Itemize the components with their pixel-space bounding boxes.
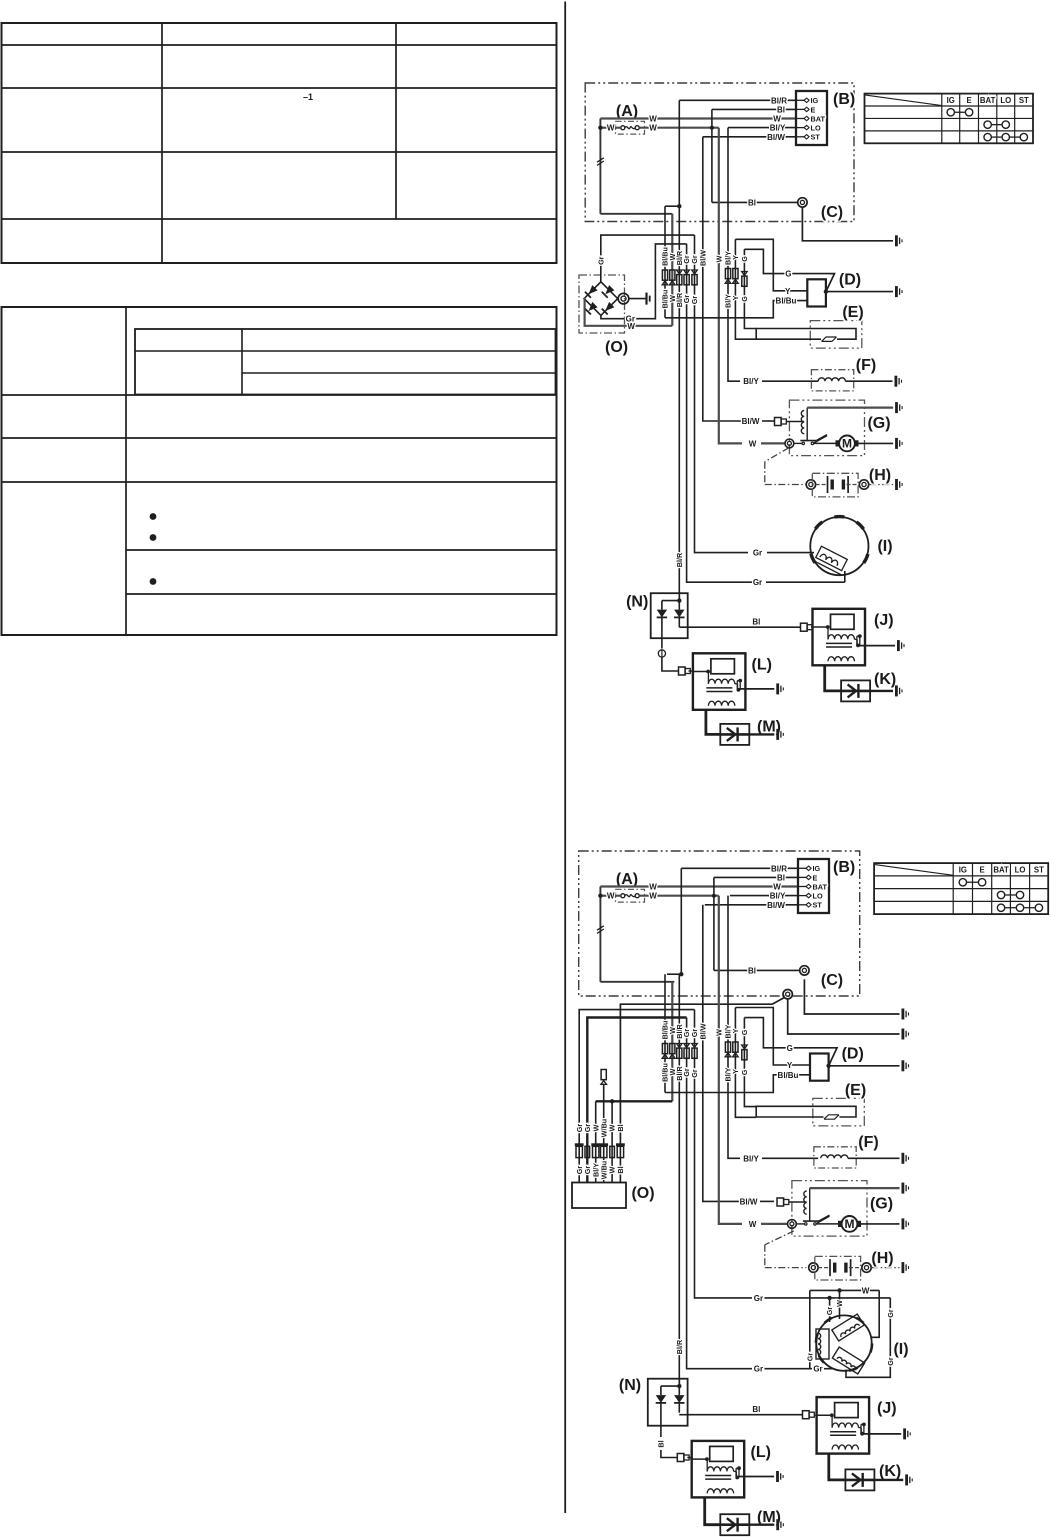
wire W to contact <box>796 1223 804 1225</box>
battery H circle left <box>806 480 815 489</box>
junction dot W wire x712 <box>710 126 714 130</box>
switch position table (diagram 1) <box>865 94 1034 144</box>
wire W (BAT) horizontal <box>600 117 796 119</box>
wire Bl/Y (LO) <box>728 127 796 129</box>
wire M to terminal d2 <box>749 1523 774 1525</box>
svg-text:Bl/R: Bl/R <box>771 864 787 873</box>
wire W (BAT) horizontal <box>600 885 798 887</box>
generator I coil 1 d2 <box>832 1314 864 1341</box>
svg-text:E: E <box>813 873 818 882</box>
diode N leads <box>661 616 663 638</box>
CDI unit O box d2 <box>572 1183 626 1209</box>
svg-text:(L): (L) <box>751 1444 771 1461</box>
bridge diode bottom-right <box>605 302 614 311</box>
wire relay D output <box>826 291 893 293</box>
svg-text:(E): (E) <box>845 1082 866 1099</box>
relay G coil <box>801 411 804 434</box>
battery H dash-dot down <box>764 462 766 485</box>
frame terminal G motor <box>902 1218 905 1229</box>
generator I rim tick 335 <box>864 554 868 563</box>
junction dot W wire x712 <box>712 894 716 898</box>
generator I coil block <box>814 546 849 574</box>
svg-text:Bl/R: Bl/R <box>675 552 684 567</box>
wire C1 to frame terminal <box>804 979 899 1014</box>
frame terminal G top <box>895 402 898 413</box>
connector Bl/Bu <box>662 1044 667 1054</box>
svg-text:LO: LO <box>811 124 821 133</box>
svg-text:Bl/W: Bl/W <box>742 417 760 426</box>
wire Bl/W (ST) <box>705 904 798 906</box>
svg-text:(O): (O) <box>605 339 628 356</box>
svg-text:ST: ST <box>1019 96 1029 105</box>
diode N right <box>674 1395 684 1403</box>
svg-text:(J): (J) <box>877 1400 897 1417</box>
connector Gr2 <box>692 270 698 274</box>
pilot lamp E outline <box>756 1106 856 1117</box>
wire C2 diagonal <box>772 998 784 1005</box>
svg-text:LO: LO <box>1000 96 1011 105</box>
generator I rim tick 135 <box>815 522 822 529</box>
wire Gr into circle d2 <box>829 1298 831 1322</box>
battery H link1 <box>818 1267 828 1269</box>
diode unit N box <box>648 1379 688 1426</box>
connector Bl J d2 <box>803 1411 810 1419</box>
diode N left <box>656 1395 666 1403</box>
wire Bl/Y to F coil <box>762 380 818 382</box>
svg-text:ST: ST <box>811 133 821 142</box>
svg-text:Bl/W: Bl/W <box>767 901 785 910</box>
svg-text:Bl: Bl <box>616 1166 625 1173</box>
wire F to terminal <box>845 380 892 382</box>
wire relay G top to terminal <box>807 407 893 409</box>
frame terminal L <box>776 683 779 694</box>
svg-text:W: W <box>607 892 615 901</box>
generator I rim tick 45 <box>857 522 864 529</box>
wire Gr1 into circle d2 <box>824 1368 833 1370</box>
connector Gr1 <box>684 1044 690 1048</box>
wire L output <box>736 1476 774 1478</box>
pilot lamp E dash-dot box <box>813 1098 865 1126</box>
frame terminal D <box>902 1060 905 1071</box>
frame terminal F <box>902 1153 905 1164</box>
svg-text:Bl/Y: Bl/Y <box>770 124 786 133</box>
wire Gr1 up into coil <box>844 571 846 582</box>
svg-text:Bl: Bl <box>748 198 756 207</box>
page column divider <box>564 2 566 1514</box>
diode N right <box>674 610 684 618</box>
wire G column <box>744 249 756 328</box>
fuse A dashed box <box>616 121 645 134</box>
relay D switch diagonal d2 <box>829 1048 837 1066</box>
svg-text:Bl: Bl <box>777 873 785 882</box>
svg-text:Y: Y <box>785 287 791 296</box>
diode N leads <box>660 1402 662 1426</box>
battery H to terminal <box>869 484 893 486</box>
svg-text:Bl: Bl <box>752 618 760 627</box>
svg-text:(H): (H) <box>871 1250 893 1267</box>
wire Bl/Bu to relay D d2 <box>665 1075 810 1093</box>
wire Bl/W column <box>703 137 741 421</box>
lamp E break <box>824 1114 840 1120</box>
wire O pin4 <box>603 1085 605 1183</box>
wire W corner right d2 <box>871 1290 879 1337</box>
svg-text:(I): (I) <box>877 538 892 555</box>
diagram 2 diode K <box>845 1469 874 1490</box>
wire Gr2 column <box>695 235 749 552</box>
frame terminal C1 <box>902 1009 905 1020</box>
wire A loop bottom <box>600 981 674 983</box>
connector Bl/Bu <box>662 270 667 280</box>
wire Bl/Bu-Bl/R link <box>665 205 679 207</box>
svg-text:BAT: BAT <box>811 114 826 123</box>
junction dot A <box>598 894 602 898</box>
svg-text:Bl/Bu: Bl/Bu <box>776 297 797 306</box>
wire L HT tail <box>705 1497 721 1524</box>
wire Gr bridge top <box>601 235 695 282</box>
frame terminal J <box>903 1428 906 1439</box>
wire bridge to ground <box>629 298 646 300</box>
svg-text:LO: LO <box>1015 865 1026 874</box>
svg-text:Gr: Gr <box>754 1294 763 1303</box>
battery H dash-dot right <box>765 1267 806 1269</box>
svg-text:Bl: Bl <box>777 105 785 114</box>
coil F dash-dot box <box>814 1147 856 1168</box>
svg-text:W: W <box>607 124 615 133</box>
ignition coil J block <box>817 1397 870 1454</box>
wire F to terminal <box>848 1157 900 1159</box>
battery H dash-dot right <box>765 484 806 486</box>
starter relay G dash-dot box <box>792 1181 867 1237</box>
svg-text:(C): (C) <box>821 972 843 989</box>
svg-text:(N): (N) <box>619 1377 641 1394</box>
connector Gr2 <box>692 1044 698 1048</box>
wire N left diode down <box>661 638 663 648</box>
wire M to terminal diag1 <box>749 733 774 735</box>
connector O pin4 upper <box>601 1070 606 1080</box>
svg-text:W: W <box>649 115 657 124</box>
battery H cells <box>827 476 829 493</box>
wire A loop bottom <box>600 213 672 215</box>
svg-text:W: W <box>714 255 723 262</box>
wire W through fuse <box>600 895 620 897</box>
svg-text:–1: –1 <box>303 92 313 102</box>
main switch circle C <box>798 198 807 207</box>
wire Y column <box>735 239 756 339</box>
svg-text:Bl/W: Bl/W <box>740 1197 758 1206</box>
svg-text:E: E <box>979 865 984 874</box>
wire Bl/R (IG) <box>679 99 796 101</box>
svg-text:Bl: Bl <box>656 1440 665 1447</box>
wire Bl to C circle <box>714 969 800 971</box>
connector B box <box>798 859 829 913</box>
junction dot A <box>598 126 602 130</box>
wire W to switch circle <box>761 442 785 444</box>
wire contacts to motor <box>814 442 836 444</box>
main switch circle C2 <box>783 990 792 999</box>
table 2 nested grid <box>135 329 556 395</box>
wire G column d2 <box>744 1018 756 1107</box>
diode N junction dot <box>677 598 681 602</box>
frame terminal G motor <box>895 438 898 449</box>
wire Gr1 column d2 <box>687 1018 752 1369</box>
wire relay D output <box>829 1065 900 1067</box>
wire Bl/Y column d2 <box>728 896 740 1159</box>
wire Bl/W conn to coil <box>789 1201 807 1203</box>
fuse A dashed box <box>616 889 645 902</box>
svg-text:BAT: BAT <box>980 96 996 105</box>
bridge diode top-left <box>589 285 598 294</box>
wire Bl/W to connector <box>762 420 774 422</box>
svg-text:G: G <box>787 1044 793 1053</box>
svg-text:Bl/Y: Bl/Y <box>743 1154 759 1163</box>
generator I coil 2 d2 <box>816 1329 829 1359</box>
svg-text:E: E <box>966 96 971 105</box>
diode N internal top <box>662 593 679 610</box>
bridge diode bottom-left <box>589 302 598 311</box>
svg-text:W: W <box>649 892 657 901</box>
wire W column d2 <box>671 982 673 1102</box>
svg-text:M: M <box>842 437 852 451</box>
svg-text:Gr: Gr <box>886 1357 895 1366</box>
table 2 bullet 2 <box>150 534 157 541</box>
table 2 outer grid <box>2 307 557 635</box>
svg-text:(F): (F) <box>858 1134 878 1151</box>
connector G <box>742 1045 748 1049</box>
wire C to frame terminal <box>802 207 893 241</box>
wire Bl N to J <box>679 626 800 628</box>
wire Bl (E) <box>714 876 798 878</box>
generator I coil 3 d2 <box>832 1347 864 1374</box>
wire Bl/Bu to relay D <box>665 301 807 318</box>
frame terminal L <box>776 1471 779 1482</box>
svg-text:Gr: Gr <box>825 1307 834 1316</box>
wire G top link <box>744 249 830 273</box>
wire W thick to pins <box>596 1100 673 1102</box>
svg-text:(L): (L) <box>752 656 772 673</box>
wire Gr1 to generator <box>766 581 845 583</box>
wire W to switch circle d2 <box>761 1223 787 1225</box>
wire Bl (E) <box>712 108 796 110</box>
battery H cells <box>829 1259 831 1276</box>
wire Bl/Y to F coil d2 <box>762 1157 818 1159</box>
generator I circle <box>810 517 868 575</box>
relay G foot bar <box>803 1220 819 1222</box>
wire Y column d2 <box>735 1008 756 1118</box>
frame terminal G top <box>902 1183 905 1194</box>
switch circle G <box>788 1220 797 1229</box>
fuse A symbol <box>621 126 625 130</box>
svg-text:(B): (B) <box>833 91 855 108</box>
svg-text:(H): (H) <box>869 467 891 484</box>
wire Gr bridge bottom <box>601 244 687 319</box>
svg-text:ST: ST <box>813 901 823 910</box>
svg-text:(D): (D) <box>839 272 861 289</box>
junction dot relay D <box>826 1064 830 1068</box>
connector Bl/Y <box>725 1042 730 1052</box>
svg-text:Gr: Gr <box>886 1309 895 1318</box>
wire Bl/Bu column <box>664 206 666 318</box>
wire Bl/Bu-Bl/R link <box>667 973 681 975</box>
wire W2 column d2 <box>719 896 742 1224</box>
wire J output <box>861 1433 901 1435</box>
svg-text:IG: IG <box>813 864 821 873</box>
wire Gr2 to right vertical d2 <box>765 1297 891 1299</box>
break marker on A loop <box>597 158 604 162</box>
svg-text:W: W <box>749 1220 757 1229</box>
connector Bl/W horizontal <box>777 1198 784 1206</box>
diode unit N box <box>651 593 688 638</box>
starter motor M <box>839 436 855 452</box>
wire Gr1 column <box>687 244 755 582</box>
svg-text:Bl/W: Bl/W <box>698 1023 707 1039</box>
relay G coil <box>804 1191 807 1214</box>
junction dot W d2 <box>837 1288 841 1292</box>
battery H dash-dot box <box>812 473 858 497</box>
svg-text:W: W <box>773 883 781 892</box>
svg-text:W: W <box>749 439 757 448</box>
junction dot Gr d2 <box>827 1296 831 1300</box>
generator I rim tick 90 <box>834 515 844 519</box>
bridge diode top-right <box>605 285 614 294</box>
starter motor M <box>842 1216 858 1232</box>
svg-text:(C): (C) <box>821 204 843 221</box>
diagram 1 diode M <box>720 724 749 745</box>
coil F winding <box>821 1155 848 1158</box>
wire Bl N to J d2 <box>679 1414 802 1416</box>
svg-text:W: W <box>627 322 635 331</box>
connector Bl/R <box>677 1044 683 1048</box>
battery H dash-dot link <box>765 448 789 462</box>
coil F winding <box>818 378 845 381</box>
svg-text:Bl/R: Bl/R <box>675 1339 684 1354</box>
svg-text:(K): (K) <box>874 671 896 688</box>
wire W to contact <box>794 442 802 444</box>
svg-text:E: E <box>811 105 816 114</box>
wire N to L connector d2 <box>661 1450 677 1458</box>
wire W into circle d2 <box>839 1290 841 1319</box>
wire Y top link d2 <box>735 1008 810 1066</box>
svg-text:LO: LO <box>813 892 823 901</box>
wire Bl/R column long <box>678 206 680 600</box>
svg-text:IG: IG <box>947 96 955 105</box>
svg-text:BAT: BAT <box>993 865 1009 874</box>
svg-text:W: W <box>649 124 657 133</box>
ignition coil L block <box>693 653 746 710</box>
wire conn to L d2 <box>687 1457 691 1459</box>
wire Y top link <box>735 239 807 290</box>
svg-text:Gr: Gr <box>813 1365 822 1374</box>
svg-text:IG: IG <box>811 96 819 105</box>
svg-text:G: G <box>740 256 749 262</box>
table 2 bullet 3 <box>150 578 157 585</box>
wire O pin6 <box>619 1140 621 1183</box>
frame terminal C <box>895 235 898 246</box>
connector B box <box>796 91 827 145</box>
wire W bridge <box>584 299 672 326</box>
wire Gr1 to generator d2 <box>765 1368 813 1370</box>
junction dot relay D <box>824 289 828 293</box>
relay D box <box>807 279 826 306</box>
wire W column <box>671 214 673 326</box>
svg-text:Bl/W: Bl/W <box>698 250 707 266</box>
wire relay G top to terminal <box>810 1187 900 1189</box>
svg-text:Bl/Y: Bl/Y <box>743 377 759 386</box>
battery H link1 <box>816 484 826 486</box>
wire O pin5 <box>611 1101 613 1182</box>
svg-text:Y: Y <box>787 1061 793 1070</box>
wire W through fuse <box>600 127 620 129</box>
frame terminal F <box>895 376 898 387</box>
connector Gr1 <box>684 270 690 274</box>
svg-text:(D): (D) <box>842 1046 864 1063</box>
rectifier O dash-dot box <box>579 275 625 333</box>
wire Bl/R column long d2 <box>678 974 680 1386</box>
diagram 2 diode M <box>720 1514 749 1535</box>
svg-text:(I): (I) <box>893 1341 908 1358</box>
wire O pin3 <box>595 1101 597 1182</box>
connectors O pins <box>575 1143 584 1146</box>
svg-text:BAT: BAT <box>813 882 828 891</box>
wire Gr2 into generator <box>810 552 815 554</box>
connector L input d2 <box>677 1454 684 1462</box>
wire Gr2 to generator <box>767 552 811 554</box>
relay D switch diagonal <box>826 274 835 292</box>
connector B terminals IG E BAT LO ST <box>806 866 811 870</box>
wire Bl/R (IG) <box>681 867 798 869</box>
relay G blade <box>819 1215 830 1221</box>
svg-text:Bl/Y: Bl/Y <box>770 892 786 901</box>
switch position table (diagram 2) <box>874 863 1048 914</box>
wire J output <box>857 645 895 647</box>
junction dot Bl/R <box>677 204 681 208</box>
svg-text:Gr: Gr <box>753 578 762 587</box>
svg-text:Gr: Gr <box>596 256 605 265</box>
wire Bl/Y column <box>728 128 740 382</box>
relay G contacts <box>802 442 804 444</box>
svg-text:Gr: Gr <box>805 1353 814 1362</box>
svg-text:(E): (E) <box>842 304 863 321</box>
ignition coil J block <box>813 609 866 666</box>
relay G foot bar <box>800 440 816 442</box>
junction dot Bl/R <box>679 972 683 976</box>
frame terminal C2 <box>902 1029 905 1040</box>
svg-text:Bl/Bu: Bl/Bu <box>778 1071 799 1080</box>
frame terminal J <box>897 640 900 651</box>
frame terminal M diag1 <box>776 729 779 740</box>
wire J HT tail <box>825 665 841 691</box>
connector Bl J <box>801 623 808 631</box>
svg-text:Bl: Bl <box>616 1124 625 1131</box>
table 1 grid <box>2 23 557 263</box>
wire J HT tail <box>829 1454 846 1480</box>
connector W <box>670 270 675 280</box>
battery H circle left <box>809 1263 818 1272</box>
wire L output <box>737 688 774 690</box>
svg-text:(G): (G) <box>870 1196 893 1213</box>
svg-text:G: G <box>740 1029 749 1035</box>
svg-text:G: G <box>740 1069 749 1075</box>
dash-dot control box border <box>585 83 854 222</box>
wire motor to terminal <box>859 442 894 444</box>
wire O pin2 Gr thick <box>587 1018 686 1183</box>
svg-text:G: G <box>740 296 749 302</box>
wire Bl/W (ST) <box>703 136 796 138</box>
generator I rim tick 290 d2 <box>849 1368 858 1371</box>
wire O pin1 Gr <box>579 1010 694 1183</box>
pilot lamp E outline <box>756 329 856 340</box>
connector N lower <box>658 650 665 657</box>
svg-text:Bl/R: Bl/R <box>771 96 787 105</box>
